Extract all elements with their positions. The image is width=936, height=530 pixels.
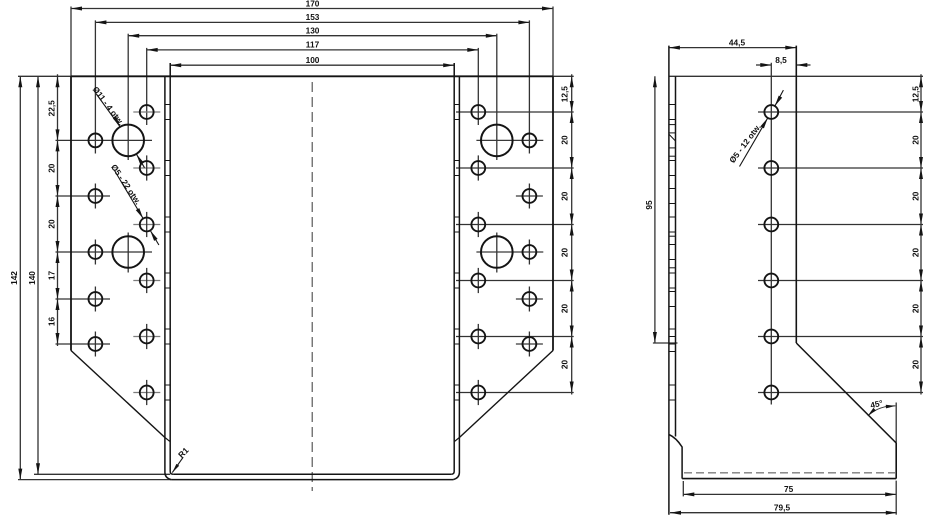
svg-text:170: 170 bbox=[306, 0, 320, 8]
svg-text:12,5: 12,5 bbox=[910, 86, 920, 103]
svg-text:22,5: 22,5 bbox=[46, 100, 56, 117]
svg-text:140: 140 bbox=[27, 271, 37, 285]
svg-text:8,5: 8,5 bbox=[775, 55, 787, 65]
svg-text:130: 130 bbox=[306, 26, 320, 36]
svg-text:79,5: 79,5 bbox=[774, 503, 791, 513]
svg-text:20: 20 bbox=[910, 248, 920, 258]
svg-text:20: 20 bbox=[910, 304, 920, 314]
svg-text:12,5: 12,5 bbox=[559, 86, 569, 103]
svg-text:20: 20 bbox=[559, 360, 569, 370]
svg-text:117: 117 bbox=[306, 40, 320, 50]
svg-text:20: 20 bbox=[559, 304, 569, 314]
svg-text:44,5: 44,5 bbox=[729, 37, 746, 47]
svg-text:20: 20 bbox=[910, 191, 920, 201]
svg-text:20: 20 bbox=[46, 219, 56, 229]
svg-text:20: 20 bbox=[910, 360, 920, 370]
svg-text:20: 20 bbox=[910, 135, 920, 145]
svg-text:75: 75 bbox=[784, 484, 794, 494]
svg-text:17: 17 bbox=[46, 271, 56, 281]
svg-text:20: 20 bbox=[559, 135, 569, 145]
svg-text:20: 20 bbox=[559, 191, 569, 201]
svg-text:100: 100 bbox=[306, 55, 320, 65]
svg-text:20: 20 bbox=[559, 248, 569, 258]
svg-text:153: 153 bbox=[306, 12, 320, 22]
svg-text:20: 20 bbox=[46, 163, 56, 173]
svg-text:95: 95 bbox=[644, 200, 654, 210]
svg-text:142: 142 bbox=[9, 271, 19, 285]
svg-text:16: 16 bbox=[46, 317, 56, 327]
